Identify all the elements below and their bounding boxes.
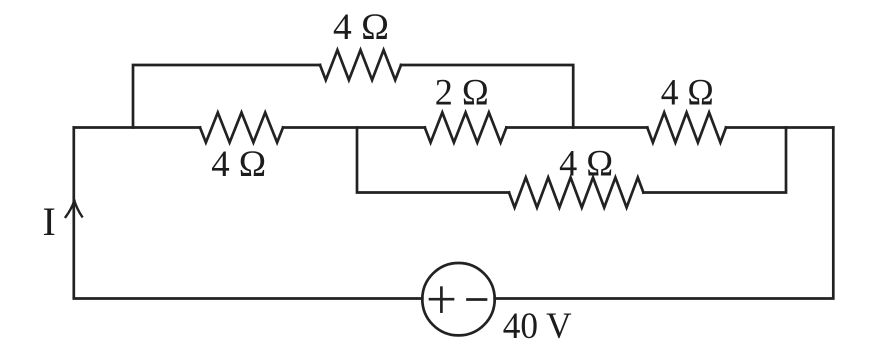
svg-text:4 Ω: 4 Ω (661, 73, 714, 114)
svg-text:4 Ω: 4 Ω (559, 144, 613, 185)
svg-text:4 Ω: 4 Ω (211, 144, 266, 185)
svg-text:4 Ω: 4 Ω (333, 7, 389, 48)
svg-text:I: I (43, 199, 56, 244)
svg-text:40 V: 40 V (503, 306, 572, 347)
svg-text:2 Ω: 2 Ω (435, 73, 489, 114)
